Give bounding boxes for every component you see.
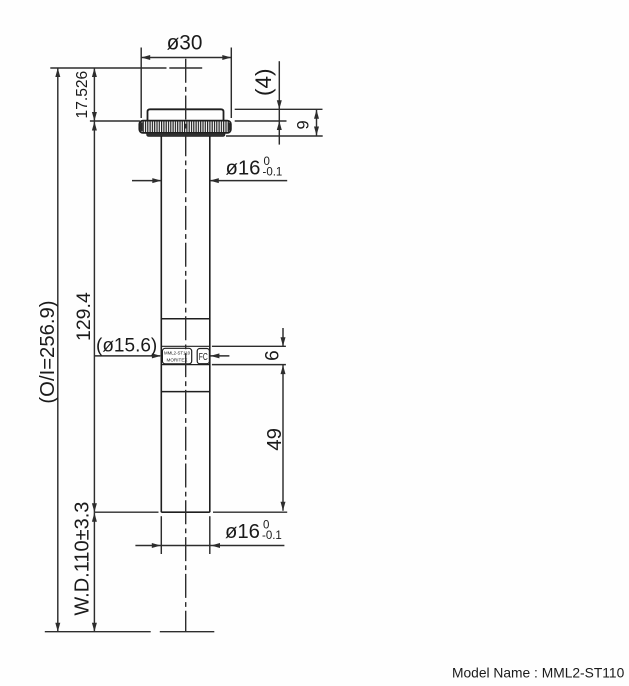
lens barrel left edge bbox=[160, 136, 162, 512]
svg-text:-0.1: -0.1 bbox=[263, 166, 283, 178]
dimension 6 band height bbox=[263, 328, 286, 361]
image plane line (top reference) bbox=[50, 67, 202, 69]
dimension ø16 0/-0.1 barrel diameter (upper) bbox=[132, 156, 287, 183]
cap top extension line (right) bbox=[235, 108, 323, 110]
label band top line bbox=[161, 345, 286, 347]
dimension (ø15.6) band diameter leader bbox=[94, 335, 229, 358]
dimension W.D.110±3.3 working distance bbox=[71, 502, 97, 632]
lens cap smooth upper part bbox=[148, 109, 224, 123]
dimension 9 cap height bbox=[295, 109, 320, 136]
svg-text:(ø15.6): (ø15.6) bbox=[96, 335, 157, 356]
flange plane extension line (right) bbox=[235, 120, 287, 122]
svg-text:9: 9 bbox=[295, 120, 313, 129]
label band bottom line bbox=[161, 364, 286, 366]
svg-text:FC: FC bbox=[199, 351, 208, 363]
svg-text:Model Name : MML2-ST110: Model Name : MML2-ST110 bbox=[452, 666, 625, 681]
cap bottom skirt bbox=[147, 133, 225, 137]
model name caption bbox=[452, 666, 625, 681]
barrel joint line (upper) bbox=[161, 318, 210, 320]
dimension ø16 0/-0.1 barrel diameter (lower) bbox=[135, 516, 284, 554]
dimension (4) cap top above flange bbox=[251, 61, 282, 144]
svg-text:129.4: 129.4 bbox=[73, 292, 95, 341]
svg-text:(O/I=256.9): (O/I=256.9) bbox=[37, 300, 59, 403]
svg-text:49: 49 bbox=[263, 428, 286, 451]
svg-text:17.526: 17.526 bbox=[74, 71, 91, 119]
lens tip extension line (right) bbox=[213, 511, 287, 513]
svg-text:-0.1: -0.1 bbox=[262, 530, 282, 542]
lens tip extension line (left) bbox=[94, 511, 158, 513]
dimension (O/I=256.9) overall length bbox=[37, 68, 60, 632]
dimension 17.526 flange focal distance bbox=[74, 68, 97, 121]
svg-text:MML2-ST110: MML2-ST110 bbox=[164, 351, 190, 356]
FC mark plate bbox=[197, 349, 209, 364]
svg-text:6: 6 bbox=[263, 350, 284, 361]
svg-text:MORITEX: MORITEX bbox=[167, 357, 188, 362]
svg-text:W.D.110±3.3: W.D.110±3.3 bbox=[71, 502, 93, 616]
barrel joint line (lower) bbox=[161, 391, 210, 393]
flange plane extension line (left) bbox=[90, 120, 140, 122]
dimension 49 band to tip bbox=[263, 365, 286, 511]
knurled focus ring with hatching bbox=[139, 121, 231, 133]
svg-text:ø16: ø16 bbox=[225, 521, 260, 543]
svg-text:ø30: ø30 bbox=[167, 31, 203, 54]
lens barrel right edge bbox=[209, 136, 211, 512]
cap bottom extension line (right) bbox=[226, 135, 323, 137]
name plate MML2-ST110 MORITEX bbox=[162, 348, 191, 364]
svg-text:ø16: ø16 bbox=[226, 157, 261, 179]
object plane line (bottom reference) bbox=[45, 631, 215, 633]
svg-text:(4): (4) bbox=[251, 69, 276, 97]
dimension ø30 cap diameter bbox=[141, 31, 231, 118]
dimension 129.4 flange to lens tip bbox=[73, 121, 97, 512]
centerline (vertical dash-dot axis) bbox=[185, 59, 187, 632]
lens barrel bottom edge bbox=[161, 511, 210, 513]
